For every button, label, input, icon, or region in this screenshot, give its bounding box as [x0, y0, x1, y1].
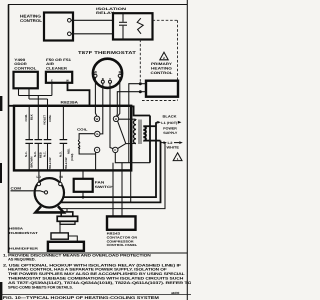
label N.C. BROWN contact 1	[24, 151, 34, 167]
power supply labels	[161, 115, 179, 150]
svg-text:SWITCH: SWITCH	[95, 185, 115, 189]
fan center terminal G	[95, 131, 100, 136]
svg-text:YELLOW: YELLOW	[64, 157, 68, 169]
wire bus L1	[19, 95, 52, 97]
wire V1 down	[149, 116, 151, 163]
dashed wire relay to right	[153, 19, 178, 21]
humidifier box	[48, 242, 84, 251]
svg-text:BLK: BLK	[30, 114, 34, 120]
label N.C. YELLOW contact 3	[42, 151, 52, 169]
svg-text:HEATING: HEATING	[151, 67, 172, 71]
svg-text:COM.: COM.	[48, 114, 52, 122]
svg-text:POWER: POWER	[163, 127, 177, 131]
humidifier relay box	[51, 233, 68, 239]
transformer T1 core	[139, 120, 141, 145]
wire node to primary box top	[140, 83, 146, 85]
svg-text:CONTROL: CONTROL	[151, 71, 173, 75]
svg-text:HUMIDIFIER: HUMIDIFIER	[9, 247, 39, 251]
svg-text:PRIMARY: PRIMARY	[151, 62, 173, 66]
wire thermostat Y to C terminal	[110, 83, 113, 149]
heating control terminal 1	[68, 19, 72, 23]
blower motor	[35, 178, 64, 207]
wire contactor drop 2	[121, 163, 123, 217]
contact 2 N.O.	[35, 140, 43, 144]
fan center box	[14, 106, 131, 171]
svg-text:BLACK: BLACK	[163, 115, 178, 119]
svg-text:FAN: FAN	[95, 181, 106, 185]
svg-text:Y: Y	[96, 148, 98, 152]
contact 2 wire lower	[37, 143, 39, 169]
wire air cleaner E stub	[51, 83, 53, 96]
humidistat H808A symbol	[57, 212, 77, 224]
svg-text:THERMOSTAT SUBBASE COMBINATION: THERMOSTAT SUBBASE COMBINATIONS WITH ISO…	[8, 276, 184, 280]
svg-text:(COM): (COM)	[71, 153, 74, 161]
warning triangle 2	[160, 52, 168, 60]
contact 4 wire lower	[62, 143, 64, 169]
svg-text:N.C.: N.C.	[42, 151, 46, 157]
svg-text:R8239A: R8239A	[61, 101, 79, 105]
fan center box top edge thick	[9, 105, 132, 107]
dashed wire bottom	[142, 100, 178, 102]
svg-text:W: W	[66, 79, 69, 83]
svg-text:CLEANER: CLEANER	[46, 66, 68, 70]
svg-text:SUPPLY: SUPPLY	[163, 131, 178, 135]
label COM BLK on contact 1 wire	[24, 114, 34, 122]
wire V2 L1 drop	[58, 122, 156, 197]
wire G to coil	[79, 134, 94, 140]
svg-text:YELLOW: YELLOW	[48, 157, 52, 169]
isolation relay label	[96, 7, 127, 15]
svg-text:COM: COM	[11, 187, 22, 191]
wire air cleaner W to bus	[68, 83, 90, 106]
contact 3 wire lower	[47, 143, 49, 169]
svg-text:SPEC-COMB SHEETS FOR DETAILS.: SPEC-COMB SHEETS FOR DETAILS.	[8, 285, 73, 289]
motor terminal HI	[59, 182, 62, 185]
contact 3 wire upper	[47, 99, 49, 140]
fan center terminal W	[94, 116, 99, 121]
wire transformer primary bottom lead	[145, 140, 161, 142]
junction fan switch bus	[82, 196, 85, 199]
contact 2 wire upper	[37, 96, 39, 140]
wire V3 down to bus2	[57, 141, 161, 203]
fan switch label	[95, 181, 115, 189]
thermostat terminal R	[118, 70, 121, 77]
wire thermostat R down	[117, 77, 120, 116]
svg-text:N.C.: N.C.	[24, 151, 28, 157]
svg-text:VIOLET: VIOLET	[42, 115, 46, 125]
svg-text:N.O.: N.O.	[58, 151, 62, 157]
transformer T1 primary winding	[143, 126, 146, 141]
dashed wire right side down	[177, 20, 179, 100]
svg-text:R: R	[115, 117, 117, 121]
junction node primary top	[139, 82, 142, 85]
motor terminal COM	[44, 191, 47, 194]
dashed wire relay contact down to node	[139, 40, 141, 83]
wire primary bottom node to R terminal	[117, 92, 141, 117]
svg-text:T87F THERMOSTAT: T87F THERMOSTAT	[78, 50, 136, 55]
primary heating control label	[151, 62, 173, 75]
junction node primary bottom	[139, 90, 142, 93]
contact 4 N.O.	[60, 140, 68, 144]
wire primary top node left and down	[129, 84, 141, 163]
wire odor control stub 1	[18, 88, 20, 95]
wire thermostat B to G terminal	[100, 83, 103, 134]
wire odor control stub 2	[28, 88, 30, 99]
odor control label	[14, 58, 36, 70]
isolation relay contact	[137, 18, 143, 34]
wire LO to fan center	[38, 171, 40, 182]
svg-text:COIL: COIL	[77, 128, 88, 132]
wire transformer primary top lead	[145, 125, 156, 127]
wire heating control T2 to isolation relay	[71, 33, 113, 35]
notes text	[3, 254, 192, 290]
contact 1 N.C.	[25, 140, 33, 144]
svg-text:BROWN: BROWN	[30, 157, 34, 168]
wire node to primary box bottom	[140, 91, 146, 93]
wire COM	[11, 191, 45, 192]
wire thick feed from fan center top to V1	[131, 106, 150, 115]
svg-text:44600: 44600	[171, 291, 180, 295]
heating control terminal 2	[68, 32, 72, 36]
svg-text:CONTROL: CONTROL	[20, 18, 43, 23]
fan switch stub upper	[82, 171, 84, 179]
wire heating control T1 to isolation relay	[71, 19, 113, 21]
transformer secondary lead loop	[131, 119, 133, 141]
thermostat T87F body	[93, 59, 122, 88]
transformer T1 secondary winding	[134, 119, 137, 143]
contact 1 wire upper	[28, 106, 30, 139]
page footer rule and caption	[0, 291, 191, 300]
motor terminal LO	[37, 182, 40, 185]
heating control label	[20, 14, 43, 24]
wire contactor drop 1	[112, 163, 114, 217]
label N.O. YELLOW contact 4	[58, 151, 68, 169]
label RED COM near coil	[68, 148, 74, 161]
heating control box	[44, 13, 73, 41]
wire fan center right edge down to bus	[130, 171, 132, 203]
humidistat label	[9, 227, 38, 235]
label N.O. RED contact 2	[33, 151, 43, 158]
svg-text:WHITE: WHITE	[167, 145, 180, 149]
isolation relay box	[113, 13, 153, 39]
svg-text:CONTROL: CONTROL	[14, 66, 36, 70]
contact 1 wire lower	[28, 143, 30, 169]
svg-text:C: C	[114, 148, 116, 152]
isolation relay coil	[119, 13, 127, 39]
wire coil to Y node	[79, 149, 96, 154]
wire bus L2	[29, 98, 48, 100]
wire humidistat to humidifier relay	[59, 224, 61, 233]
wire R terminal to transformer lead	[118, 118, 135, 120]
odor control box	[14, 72, 38, 89]
fan center terminal Y	[94, 147, 99, 152]
thermostat terminal W	[94, 70, 98, 77]
air cleaner box	[46, 72, 72, 83]
svg-text:COM.: COM.	[24, 114, 28, 122]
fan switch box	[74, 179, 93, 192]
air cleaner label	[46, 58, 71, 70]
border frame	[0, 0, 187, 300]
fan relay contact arm R to C	[118, 121, 136, 148]
wire C terminal drop	[115, 152, 150, 162]
wire step to humidifier	[68, 236, 77, 242]
contactor label	[107, 232, 139, 247]
svg-text:RED.: RED.	[68, 148, 71, 154]
relay coil	[78, 140, 79, 149]
svg-text:FIG. 10—TYPICAL HOOKUP OF HEAT: FIG. 10—TYPICAL HOOKUP OF HEATING-COOLIN…	[3, 295, 160, 300]
fan center terminal R	[113, 116, 118, 121]
svg-text:N.O.: N.O.	[33, 151, 37, 157]
svg-text:CONTROL PANEL: CONTROL PANEL	[107, 243, 138, 247]
L1 arrow stub	[156, 121, 181, 124]
contactor box R8243	[107, 216, 136, 229]
contact 4 wire upper	[62, 106, 64, 139]
wire V4 down to bus3	[60, 143, 165, 209]
primary heating control box	[146, 81, 178, 97]
contact 3 N.C.	[44, 140, 52, 144]
label VIOLET COM contact 3 wire	[42, 114, 52, 125]
svg-text:HUMIDISTAT: HUMIDISTAT	[9, 231, 38, 235]
svg-text:THE POWER SUPPLIES MAY ALSO BE: THE POWER SUPPLIES MAY ALSO BE ACCOMPLIS…	[8, 272, 186, 276]
wire thermostat W down	[95, 77, 97, 116]
thermostat terminal B	[101, 77, 104, 83]
L2 arrow stub	[161, 141, 183, 144]
wire HI to fan center	[59, 171, 61, 182]
svg-text:W: W	[96, 117, 99, 121]
svg-text:E: E	[51, 79, 53, 83]
fan switch stub lower	[82, 192, 84, 197]
warning triangle 1	[173, 153, 182, 161]
wire Y drop	[95, 152, 97, 169]
fan center terminal C	[113, 147, 118, 152]
motor base	[36, 206, 64, 212]
svg-text:L1 (HOT): L1 (HOT)	[161, 121, 177, 125]
svg-text:G: G	[96, 132, 98, 136]
humidistat feed stub	[66, 209, 68, 212]
thermostat terminal Y	[109, 77, 112, 83]
svg-text:AS REQUIRED.: AS REQUIRED.	[8, 258, 36, 262]
